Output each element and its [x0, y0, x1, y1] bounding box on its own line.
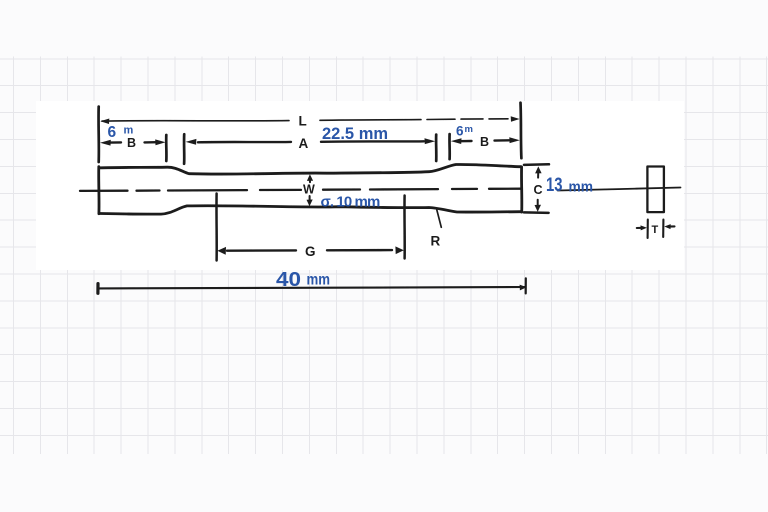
svg-text:C: C: [534, 183, 543, 197]
svg-text:m: m: [124, 125, 134, 137]
svg-text:6: 6: [456, 124, 464, 139]
svg-text:6: 6: [108, 124, 117, 141]
svg-text:W: W: [303, 183, 315, 197]
svg-text:R: R: [431, 234, 441, 249]
svg-text:22.5 mm: 22.5 mm: [322, 125, 388, 143]
svg-text:G: G: [305, 244, 316, 259]
svg-text:T: T: [652, 224, 659, 236]
svg-text:mm: mm: [307, 272, 331, 289]
svg-text:40: 40: [276, 269, 301, 291]
svg-text:m: m: [465, 124, 473, 135]
svg-text:σ. 10 mm: σ. 10 mm: [321, 194, 380, 211]
svg-text:A: A: [299, 136, 309, 151]
svg-text:mm: mm: [569, 179, 594, 196]
svg-text:13: 13: [546, 175, 563, 196]
svg-text:B: B: [480, 135, 489, 149]
svg-text:L: L: [299, 114, 307, 129]
svg-text:B: B: [127, 136, 136, 150]
